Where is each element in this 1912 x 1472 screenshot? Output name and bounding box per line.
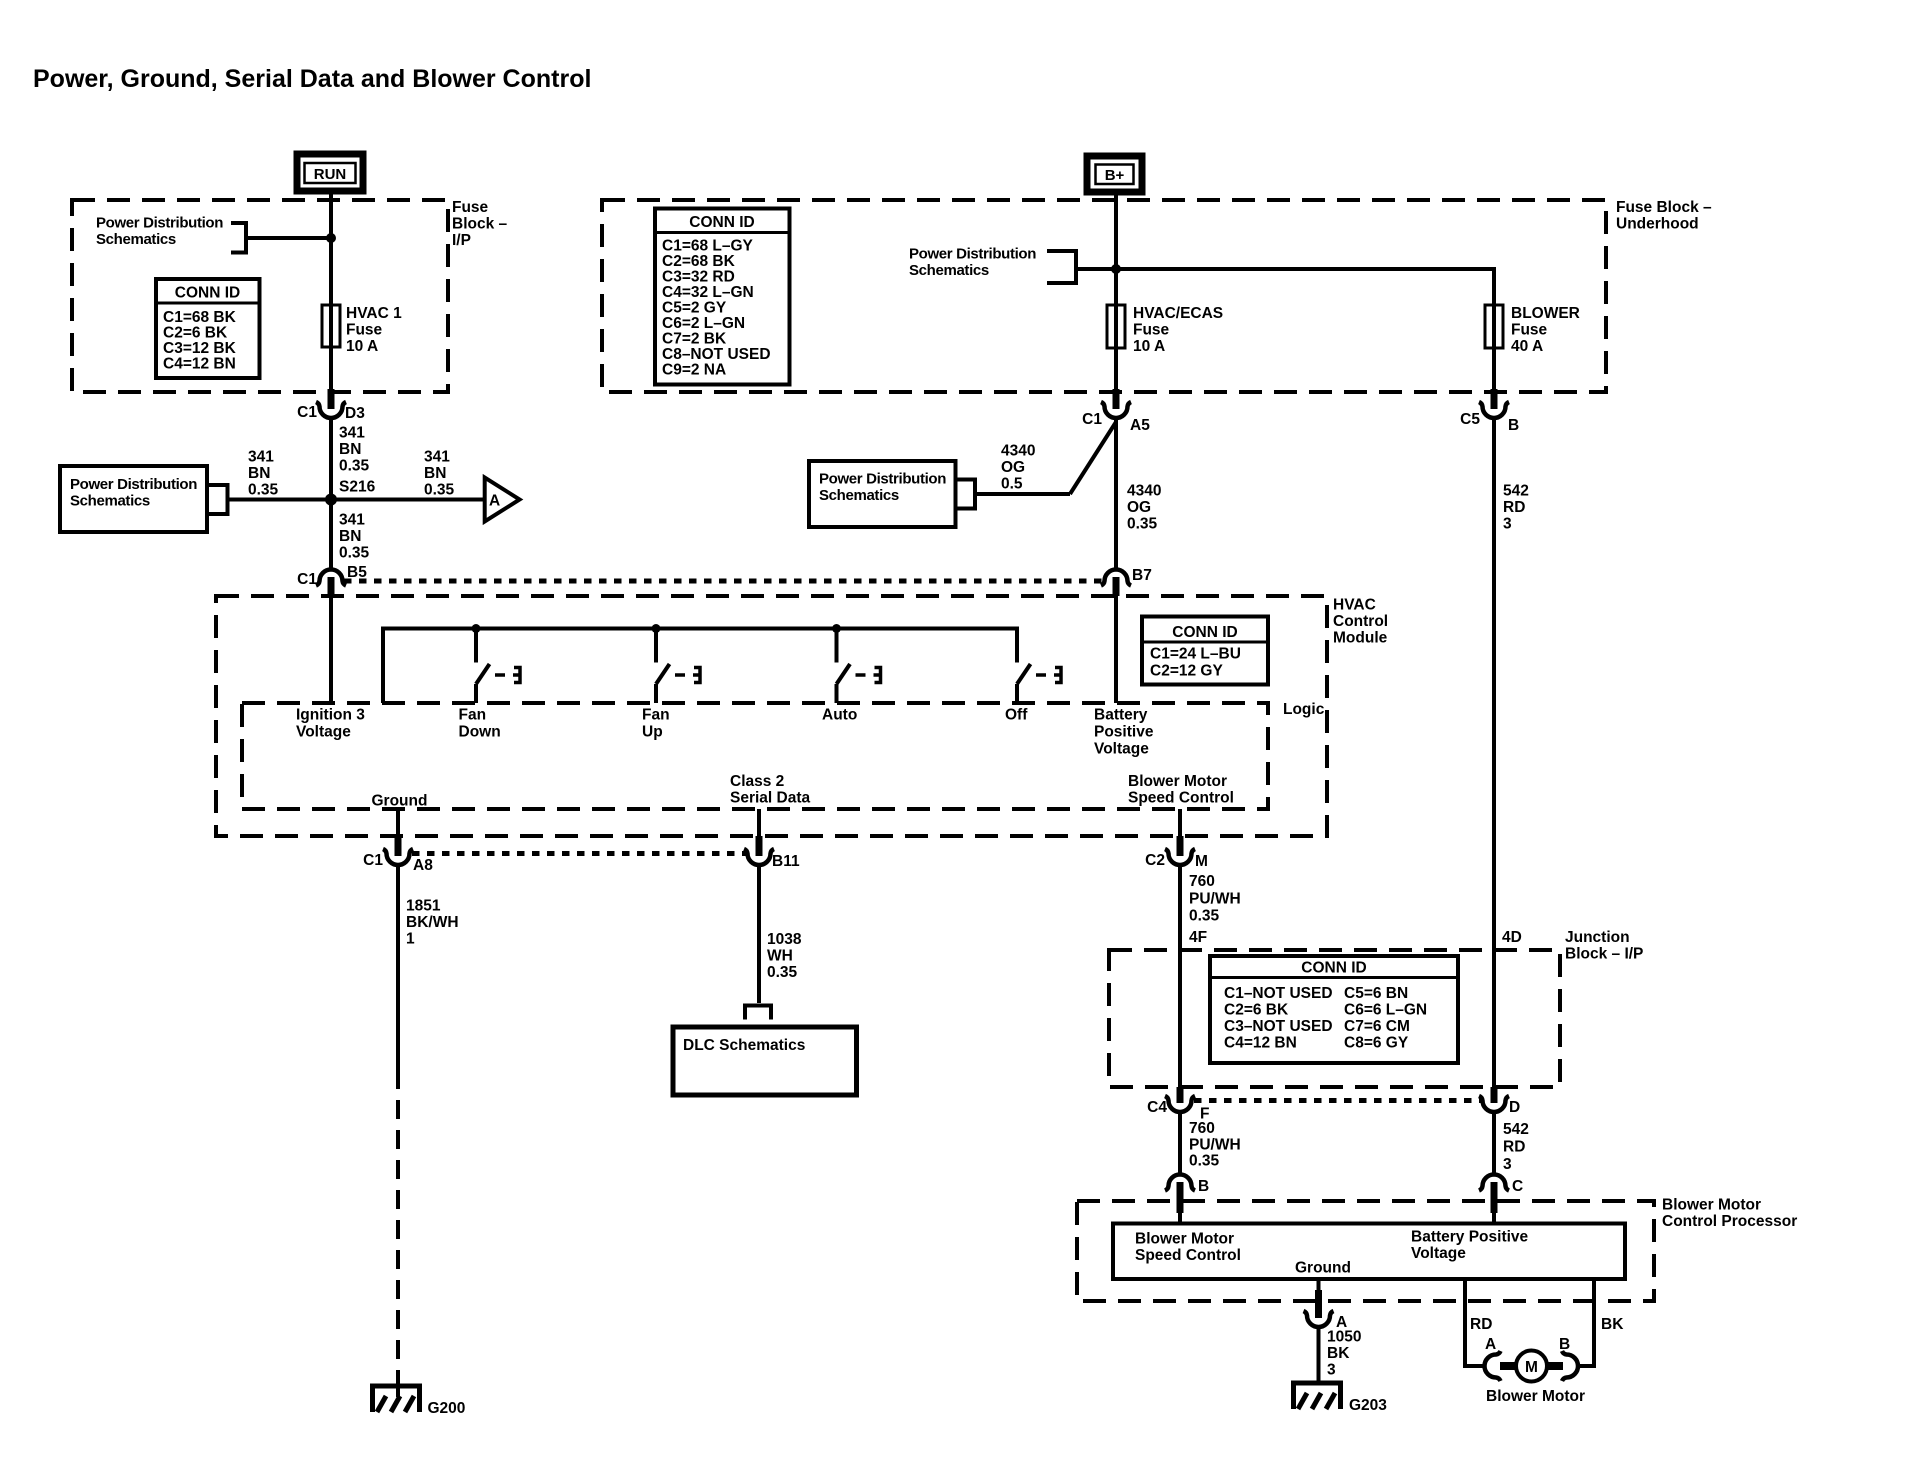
svg-text:Power Distribution: Power Distribution (70, 476, 197, 493)
svg-text:A8: A8 (413, 857, 433, 874)
fuse block I/P dashed box (72, 200, 448, 392)
CONN ID table (fuse block I/P) (156, 279, 260, 378)
svg-text:Blower Motor: Blower Motor (1128, 773, 1227, 790)
svg-text:C: C (1512, 1178, 1523, 1195)
wire S216 to A arrow (331, 498, 483, 502)
svg-text:A5: A5 (1130, 417, 1150, 434)
svg-text:M: M (1525, 1359, 1538, 1376)
svg-text:HVAC: HVAC (1333, 597, 1376, 614)
svg-text:CONN ID: CONN ID (175, 285, 240, 302)
svg-text:Logic: Logic (1283, 701, 1325, 718)
inline connector dotted line A8 to B11 (412, 851, 746, 856)
label 760 PU/WH 0.35 (upper) (1189, 873, 1241, 925)
svg-text:C1=68 L–GY: C1=68 L–GY (662, 238, 754, 255)
label 1038 WH 0.35 (767, 931, 802, 981)
connector C2 pin M (1145, 836, 1208, 870)
label Battery Positive Voltage (1094, 707, 1154, 758)
svg-text:Blower Motor: Blower Motor (1135, 1231, 1234, 1248)
svg-text:Ignition 3: Ignition 3 (296, 707, 365, 724)
wire dashed ground run to G200 (396, 1070, 400, 1375)
box Power Distribution Schematics (left mid) (60, 466, 207, 532)
connector C5 pin B (1460, 389, 1519, 434)
svg-text:10 A: 10 A (346, 338, 378, 355)
svg-text:0.35: 0.35 (339, 458, 370, 475)
junction dot on B+ wire (1111, 264, 1121, 274)
svg-text:B: B (1559, 1336, 1570, 1353)
wire 1038 WH serial data (757, 865, 761, 1004)
svg-text:BN: BN (424, 465, 446, 482)
svg-text:BK/WH: BK/WH (406, 914, 459, 931)
svg-text:C6=6 L–GN: C6=6 L–GN (1344, 1002, 1427, 1019)
label Ignition 3 Voltage (296, 707, 365, 741)
svg-text:542: 542 (1503, 1121, 1529, 1138)
svg-text:C5=6 BN: C5=6 BN (1344, 985, 1408, 1002)
Logic dashed box (242, 703, 1268, 809)
box DLC Schematics (673, 1027, 857, 1095)
svg-text:4F: 4F (1189, 929, 1207, 946)
svg-text:Speed Control: Speed Control (1128, 790, 1234, 807)
svg-text:C4=12 BN: C4=12 BN (1224, 1035, 1297, 1052)
label 760 PU/WH 0.35 (lower) (1189, 1120, 1241, 1170)
wire 542 RD from B to junction block (1492, 418, 1496, 1088)
wire 4340 OG from A5 to B7 (1114, 418, 1118, 571)
connector pin C (processor) (1479, 1175, 1523, 1224)
label 341 BN 0.35 (right of S216) (424, 449, 455, 499)
svg-text:4340: 4340 (1127, 483, 1161, 500)
svg-text:BK: BK (1327, 1345, 1350, 1362)
svg-text:Schematics: Schematics (909, 262, 989, 279)
svg-text:542: 542 (1503, 483, 1529, 500)
svg-text:M: M (1195, 853, 1208, 870)
node S216 (325, 494, 337, 506)
svg-text:Schematics: Schematics (70, 493, 150, 510)
HVAC Control Module dashed box (216, 596, 1327, 836)
svg-text:3: 3 (1327, 1362, 1336, 1379)
wire RUN to HVAC 1 fuse (329, 191, 333, 305)
svg-text:C7=6 CM: C7=6 CM (1344, 1018, 1410, 1035)
svg-text:C2: C2 (1145, 852, 1165, 869)
svg-text:RUN: RUN (314, 166, 347, 183)
svg-text:B: B (1508, 417, 1519, 434)
label Fuse Block - I/P (452, 199, 508, 249)
svg-text:OG: OG (1127, 499, 1151, 516)
bracket from Power Distribution label to B+ wire (1047, 249, 1116, 285)
CONN ID table (fuse block underhood) (655, 209, 790, 385)
svg-text:Fuse: Fuse (346, 322, 383, 339)
svg-text:Up: Up (642, 724, 663, 741)
svg-text:Blower Motor: Blower Motor (1486, 1388, 1585, 1405)
label 542 RD 3 (top) (1503, 483, 1529, 533)
svg-text:C2=68 BK: C2=68 BK (662, 253, 736, 270)
svg-text:C3–NOT USED: C3–NOT USED (1224, 1018, 1333, 1035)
svg-text:A: A (489, 493, 500, 510)
svg-text:C6=2 L–GN: C6=2 L–GN (662, 315, 745, 332)
svg-text:G200: G200 (428, 1400, 466, 1417)
svg-text:Down: Down (459, 724, 501, 741)
svg-text:0.5: 0.5 (1001, 476, 1023, 493)
svg-text:40 A: 40 A (1511, 338, 1543, 355)
svg-text:Underhood: Underhood (1616, 216, 1699, 233)
svg-text:1851: 1851 (406, 898, 441, 915)
svg-text:BK: BK (1601, 1316, 1624, 1333)
CONN ID table (junction block) (1210, 956, 1458, 1063)
label Battery Positive Voltage (processor) (1411, 1229, 1529, 1263)
node B+ (battery feed) (1087, 156, 1142, 192)
svg-text:341: 341 (424, 449, 450, 466)
label Blower Motor Speed Control (processor) (1135, 1231, 1241, 1265)
svg-text:Fuse: Fuse (452, 199, 489, 216)
svg-text:Fan: Fan (642, 707, 670, 724)
svg-text:0.35: 0.35 (1127, 516, 1158, 533)
svg-text:Speed Control: Speed Control (1135, 1247, 1241, 1264)
svg-text:1: 1 (406, 931, 415, 948)
label Blower Motor Speed Control (logic) (1128, 773, 1234, 807)
inline connector dotted line F to D (1194, 1098, 1481, 1103)
switch Auto (822, 624, 881, 724)
svg-text:DLC Schematics: DLC Schematics (683, 1037, 805, 1054)
wire B+ to HVAC/ECAS fuse (1114, 192, 1118, 305)
svg-text:C7=2 BK: C7=2 BK (662, 331, 727, 348)
svg-text:C1–NOT USED: C1–NOT USED (1224, 985, 1333, 1002)
switch Fan Up (642, 624, 700, 741)
svg-text:C8=6 GY: C8=6 GY (1344, 1035, 1409, 1052)
svg-text:Voltage: Voltage (296, 724, 351, 741)
svg-text:Voltage: Voltage (1094, 741, 1149, 758)
connector C1 pin B5 (297, 564, 367, 596)
wire class 2 serial data out of logic (757, 809, 761, 836)
wire S216 down to B5 (329, 500, 333, 571)
label 1851 BK/WH 1 (406, 898, 459, 948)
svg-text:0.35: 0.35 (339, 545, 370, 562)
wire battery positive voltage into logic (1114, 596, 1118, 703)
wire ground out of processor (1317, 1279, 1321, 1290)
svg-text:B+: B+ (1105, 167, 1125, 184)
ground G203 (1291, 1383, 1387, 1414)
off-page arrow A (485, 478, 520, 522)
svg-text:BN: BN (248, 465, 270, 482)
svg-text:B7: B7 (1132, 567, 1152, 584)
svg-text:0.35: 0.35 (248, 482, 279, 499)
svg-text:C1=68 BK: C1=68 BK (163, 309, 237, 326)
svg-text:Ground: Ground (1295, 1260, 1351, 1277)
svg-text:PU/WH: PU/WH (1189, 891, 1241, 908)
label Power Distribution Schematics (underhood) (909, 246, 1036, 280)
svg-text:Voltage: Voltage (1411, 1245, 1466, 1262)
wire 1851 BK/WH ground run (396, 865, 400, 1071)
connector pin B (processor) (1165, 1175, 1209, 1224)
wire blower motor speed control out of logic (1178, 809, 1182, 836)
wire 1050 BK to G203 (1317, 1327, 1321, 1383)
svg-text:Fan: Fan (459, 707, 487, 724)
svg-text:S216: S216 (339, 479, 376, 496)
junction block I/P dashed box (1109, 950, 1560, 1087)
connector pin A (ground) (1304, 1290, 1348, 1331)
wire 341 BN from D3 to S216 (329, 418, 333, 500)
label Power Distribution Schematics (left) (96, 215, 223, 249)
junction dot on RUN wire (326, 233, 336, 243)
fuse block underhood dashed box (602, 200, 1606, 392)
svg-text:341: 341 (339, 512, 365, 529)
svg-text:RD: RD (1470, 1316, 1492, 1333)
blower motor M (1516, 1351, 1547, 1382)
svg-text:D: D (1509, 1099, 1520, 1116)
svg-text:4340: 4340 (1001, 443, 1035, 460)
svg-text:Class 2: Class 2 (730, 773, 784, 790)
svg-text:Power, Ground, Serial Data and: Power, Ground, Serial Data and Blower Co… (33, 65, 591, 93)
svg-text:Off: Off (1005, 707, 1028, 724)
svg-text:0.35: 0.35 (767, 964, 798, 981)
label 1050 BK 3 (1327, 1329, 1361, 1379)
svg-text:C1=24 L–BU: C1=24 L–BU (1150, 646, 1241, 663)
wire ground out of logic (396, 809, 400, 836)
svg-text:C2=6 BK: C2=6 BK (1224, 1002, 1289, 1019)
off-page bracket to DLC (745, 1006, 771, 1020)
svg-text:0.35: 0.35 (1189, 1153, 1220, 1170)
svg-text:Control Processor: Control Processor (1662, 1213, 1797, 1230)
connector pin B11 (744, 836, 800, 870)
svg-text:760: 760 (1189, 1120, 1215, 1137)
svg-text:0.35: 0.35 (424, 482, 455, 499)
svg-text:I/P: I/P (452, 232, 471, 249)
svg-text:1050: 1050 (1327, 1329, 1361, 1346)
svg-text:Block –: Block – (452, 216, 508, 233)
processor internal box (1113, 1224, 1625, 1280)
Blower Motor Control Processor dashed box (1077, 1201, 1654, 1301)
fuse BLOWER 40A (1492, 305, 1496, 389)
motor stub right (1546, 1362, 1563, 1370)
svg-text:G203: G203 (1349, 1397, 1387, 1414)
svg-text:D3: D3 (345, 405, 365, 422)
label 4340 OG 0.5 (1001, 443, 1035, 493)
bracket from box to 4340 wire (956, 478, 1071, 511)
box Power Distribution Schematics (mid right) (809, 461, 956, 527)
svg-text:Module: Module (1333, 630, 1388, 647)
svg-text:Battery Positive: Battery Positive (1411, 1229, 1529, 1246)
fuse HVAC/ECAS 10A (1114, 305, 1118, 389)
svg-text:760: 760 (1189, 873, 1215, 890)
wire 542 RD to processor (1492, 1112, 1496, 1176)
svg-text:Fuse: Fuse (1511, 322, 1548, 339)
svg-text:PU/WH: PU/WH (1189, 1137, 1241, 1154)
svg-text:Serial Data: Serial Data (730, 790, 811, 807)
svg-text:Power Distribution: Power Distribution (96, 215, 223, 232)
wire junction to BLOWER fuse (1116, 269, 1494, 305)
wire diagonal branch from A5 (1070, 422, 1116, 494)
svg-text:Schematics: Schematics (819, 487, 899, 504)
wire RD from processor to motor (1465, 1279, 1484, 1366)
svg-text:C9=2 NA: C9=2 NA (662, 362, 726, 379)
ground G200 (370, 1371, 465, 1417)
svg-text:C2=6 BK: C2=6 BK (163, 325, 228, 342)
svg-text:Block – I/P: Block – I/P (1565, 946, 1643, 963)
internal bus wire (383, 629, 1017, 704)
label HVAC Control Module (1333, 597, 1388, 647)
svg-text:B5: B5 (347, 564, 367, 581)
svg-text:Schematics: Schematics (96, 231, 176, 248)
label 341 BN 0.35 (above S216) (339, 425, 370, 475)
node RUN (ignition feed) (297, 154, 363, 191)
svg-text:Positive: Positive (1094, 724, 1154, 741)
svg-text:C3=12 BK: C3=12 BK (163, 340, 237, 357)
switch Fan Down (459, 624, 521, 741)
svg-text:3: 3 (1503, 1156, 1512, 1173)
svg-text:B11: B11 (772, 853, 800, 870)
svg-text:341: 341 (339, 425, 365, 442)
connector C1 pin A5 (1082, 389, 1150, 434)
svg-text:Power Distribution: Power Distribution (819, 471, 946, 488)
svg-text:Power Distribution: Power Distribution (909, 246, 1036, 263)
svg-text:HVAC/ECAS: HVAC/ECAS (1133, 305, 1223, 322)
svg-text:A: A (1485, 1336, 1496, 1353)
wire BK from processor to motor (1578, 1279, 1594, 1366)
svg-text:C4=12 BN: C4=12 BN (163, 356, 236, 373)
inline connector dotted line B5 to B7 (344, 579, 1104, 584)
svg-text:Ground: Ground (372, 793, 428, 810)
svg-text:C8–NOT USED: C8–NOT USED (662, 346, 771, 363)
svg-text:0.35: 0.35 (1189, 908, 1220, 925)
svg-text:Junction: Junction (1565, 929, 1630, 946)
svg-text:Blower Motor: Blower Motor (1662, 1197, 1761, 1214)
svg-text:C2=12 GY: C2=12 GY (1150, 663, 1223, 680)
svg-text:3: 3 (1503, 516, 1512, 533)
connector C4 pin F (1147, 1087, 1209, 1123)
label Blower Motor Control Processor (1662, 1197, 1797, 1231)
label 341 BN 0.35 (below S216) (339, 512, 370, 562)
svg-text:RD: RD (1503, 499, 1525, 516)
svg-text:1038: 1038 (767, 931, 802, 948)
svg-text:CONN ID: CONN ID (689, 214, 754, 231)
connector C1 pin D3 (297, 389, 365, 422)
svg-text:C3=32 RD: C3=32 RD (662, 269, 735, 286)
svg-text:C1: C1 (297, 404, 317, 421)
svg-text:WH: WH (767, 948, 793, 965)
connector pin D (1479, 1087, 1520, 1116)
CONN ID table (HVAC control module) (1142, 617, 1268, 685)
svg-text:C1: C1 (297, 571, 317, 588)
svg-text:BLOWER: BLOWER (1511, 305, 1580, 322)
bracket and wire from Power Distribution Schematics to S216 (207, 483, 331, 516)
svg-text:CONN ID: CONN ID (1301, 960, 1366, 977)
switch Off (1005, 629, 1061, 724)
label Fuse Block - Underhood (1616, 199, 1712, 233)
svg-text:C4: C4 (1147, 1099, 1167, 1116)
svg-text:RD: RD (1503, 1139, 1525, 1156)
svg-text:OG: OG (1001, 459, 1025, 476)
svg-text:HVAC 1: HVAC 1 (346, 305, 402, 322)
connector pin A (motor) (1485, 1336, 1501, 1381)
motor stub left (1500, 1362, 1517, 1370)
svg-text:C1: C1 (1082, 411, 1102, 428)
label 341 BN 0.35 (left of S216) (248, 449, 279, 499)
svg-text:10 A: 10 A (1133, 338, 1165, 355)
connector C1 pin A8 (363, 836, 433, 874)
label Junction Block - I/P (1565, 929, 1643, 963)
bracket from Power Distribution label to wire (231, 223, 331, 253)
connector pin B (motor) (1559, 1336, 1578, 1381)
label 542 RD 3 (lower) (1503, 1121, 1529, 1173)
label 4340 OG 0.35 (1127, 483, 1161, 533)
label Class 2 Serial Data (730, 773, 811, 807)
svg-text:B: B (1198, 1178, 1209, 1195)
svg-text:C4=32 L–GN: C4=32 L–GN (662, 284, 754, 301)
svg-text:4D: 4D (1502, 929, 1522, 946)
svg-text:BN: BN (339, 441, 361, 458)
svg-text:341: 341 (248, 449, 274, 466)
svg-text:Control: Control (1333, 613, 1388, 630)
svg-text:Fuse: Fuse (1133, 322, 1170, 339)
connector pin B7 (1101, 567, 1152, 596)
wire ignition 3 voltage into logic (329, 596, 333, 703)
wire 760 PU/WH to processor (1178, 1112, 1182, 1176)
svg-text:C1: C1 (363, 852, 383, 869)
svg-text:BN: BN (339, 528, 361, 545)
svg-text:Fuse Block –: Fuse Block – (1616, 199, 1712, 216)
svg-text:Battery: Battery (1094, 707, 1148, 724)
svg-text:CONN ID: CONN ID (1172, 624, 1237, 641)
svg-text:C5: C5 (1460, 411, 1480, 428)
fuse HVAC 1 10A (329, 305, 333, 389)
svg-text:C5=2 GY: C5=2 GY (662, 300, 727, 317)
wire 760 PU/WH from M to junction block (1178, 865, 1182, 1088)
svg-text:Auto: Auto (822, 707, 857, 724)
